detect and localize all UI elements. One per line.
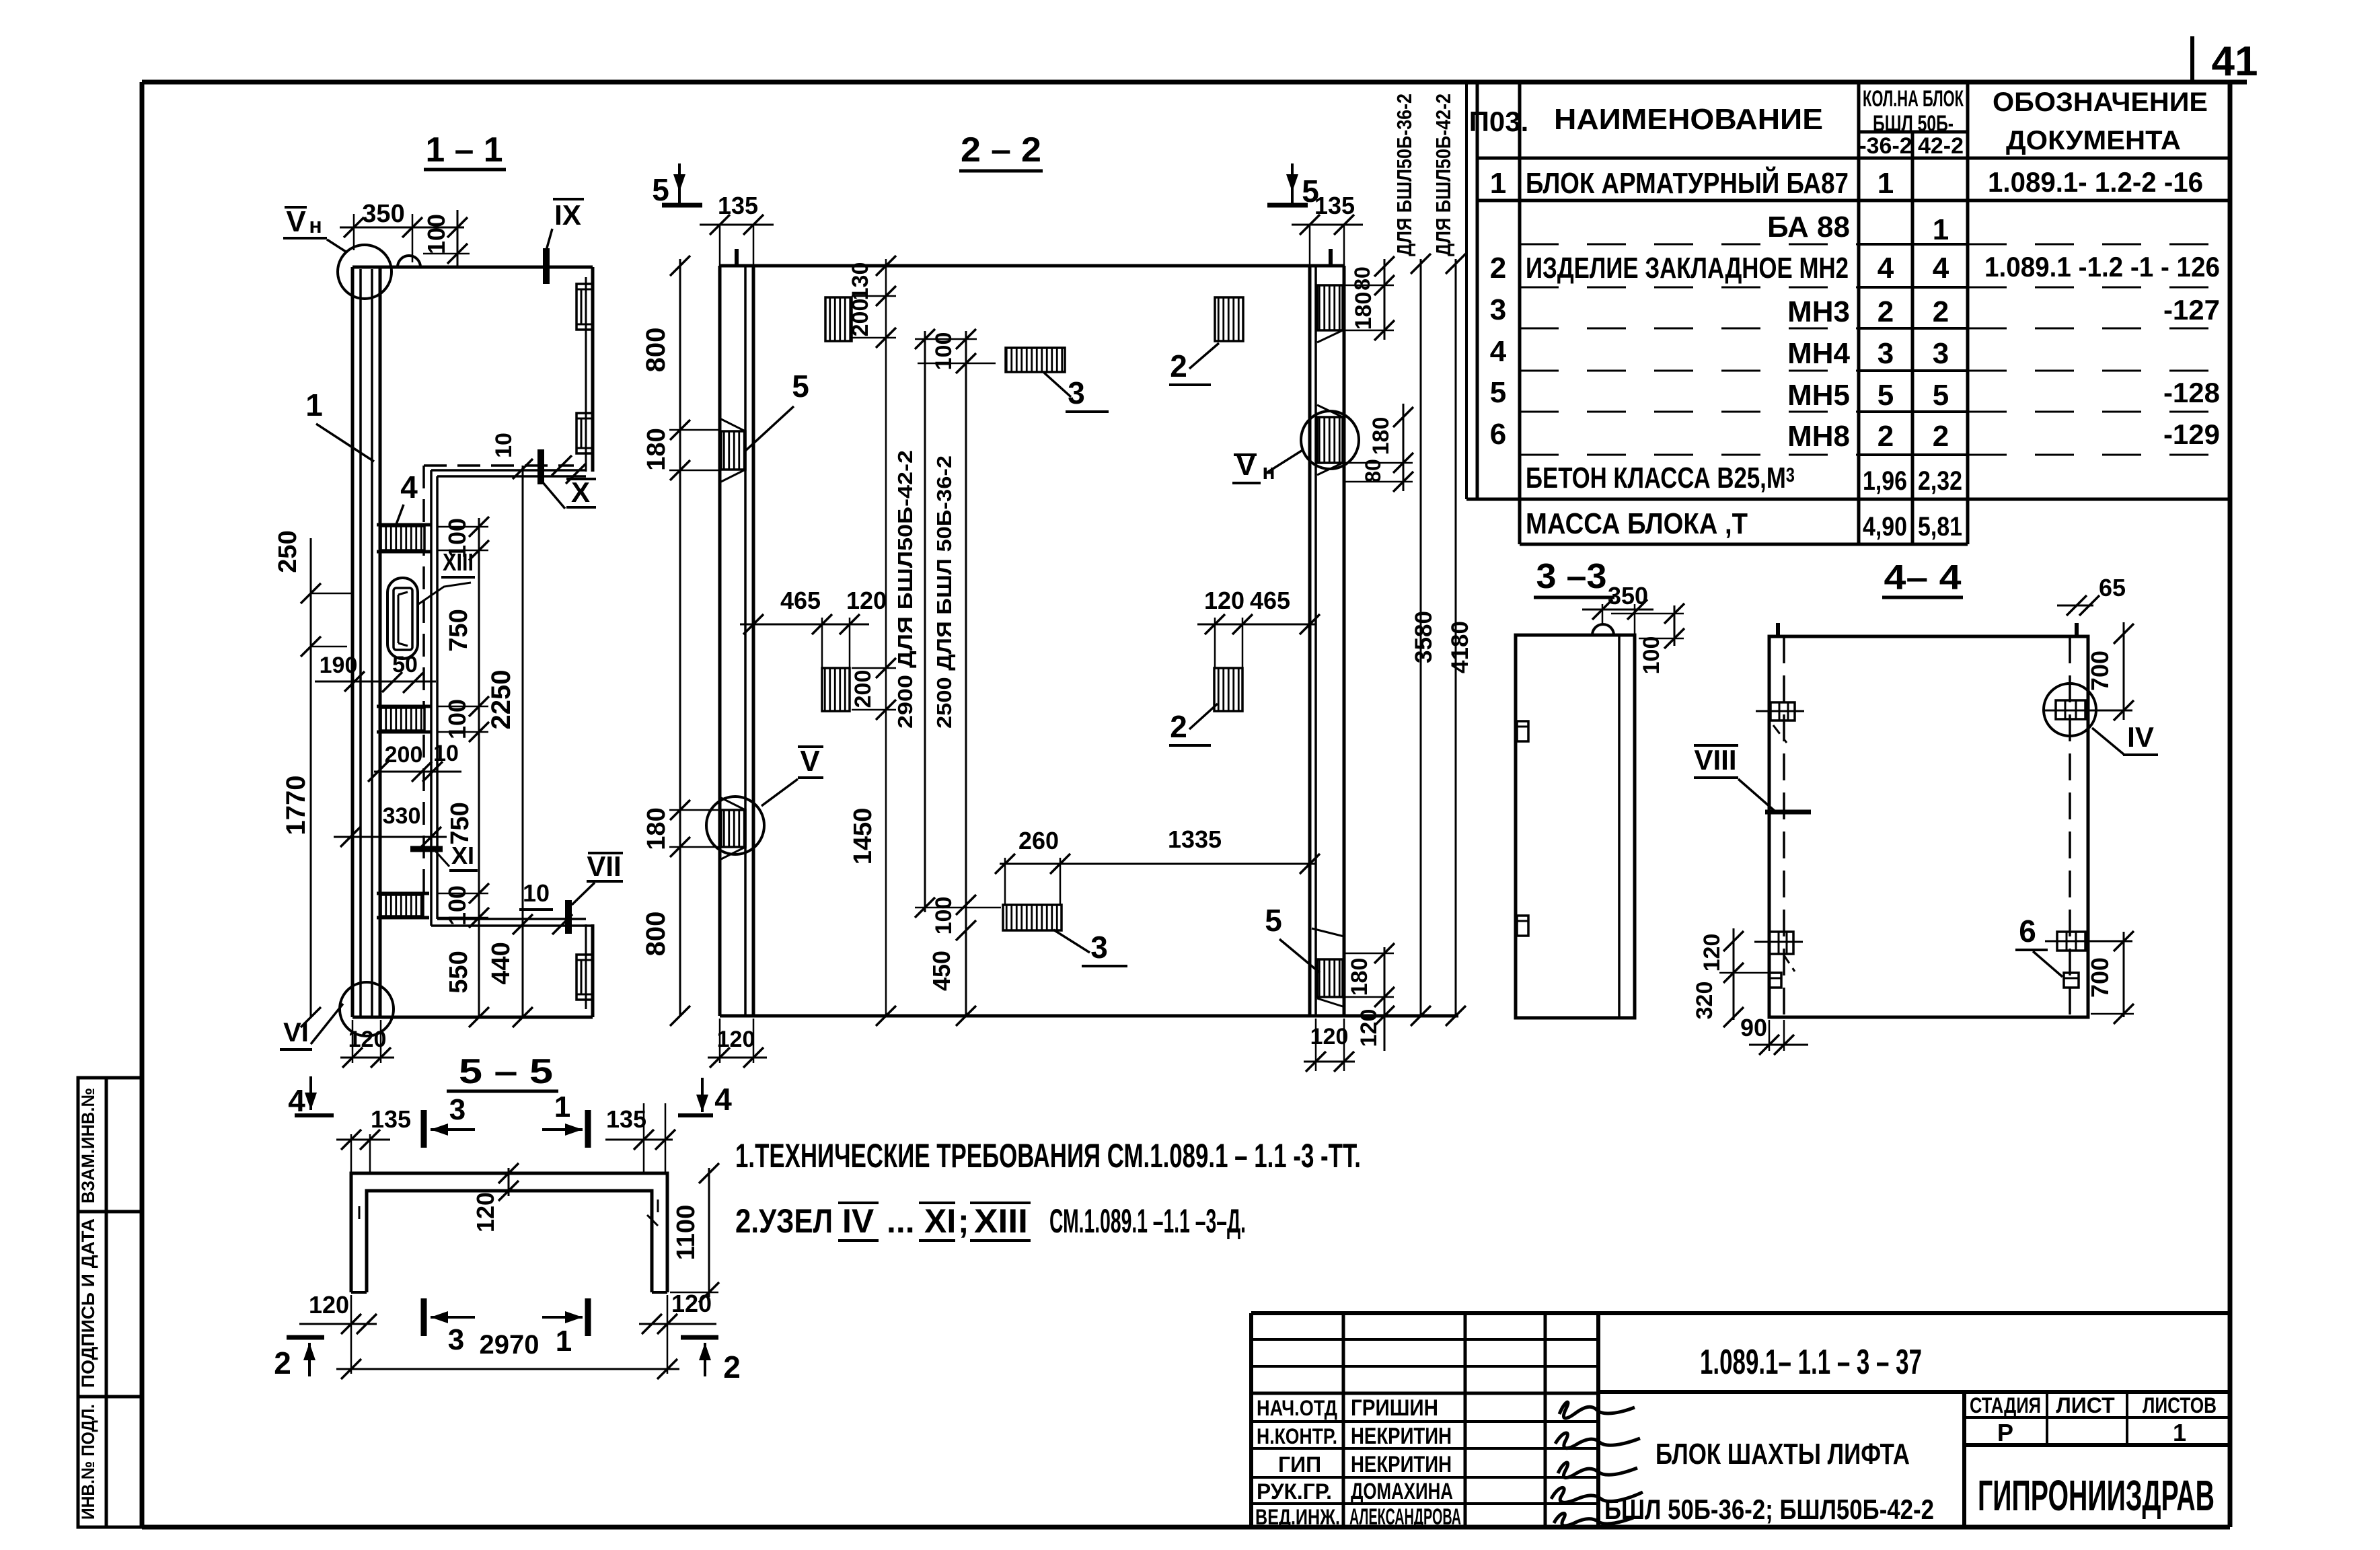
svg-text:МН8: МН8 (1787, 420, 1850, 453)
1-1 right top wall edge (591, 267, 595, 472)
svg-text:МН5: МН5 (1787, 379, 1850, 412)
2-2 tall dim line 2900 for 42-2 (924, 331, 926, 912)
svg-text:ЛИСТОВ: ЛИСТОВ (2143, 1393, 2217, 1417)
2-2 right wall plate bottom (pos5) (1317, 959, 1343, 997)
1-1 node circle VI bottom (340, 982, 394, 1036)
5-5 left leg bottom (351, 1291, 367, 1294)
svg-text:100: 100 (1639, 636, 1664, 675)
svg-text:МН3: МН3 (1787, 295, 1850, 328)
svg-text:V: V (286, 205, 306, 238)
svg-text:3: 3 (1490, 293, 1506, 326)
svg-text:200: 200 (385, 742, 423, 768)
sheet border frame (142, 80, 2247, 85)
svg-text:1100: 1100 (672, 1205, 700, 1260)
svg-text:250: 250 (274, 530, 302, 573)
2-2 right side wall lines (1308, 266, 1312, 1016)
svg-text:1450: 1450 (849, 808, 877, 865)
svg-text:2: 2 (274, 1345, 291, 1380)
4-4 wall outline (1769, 636, 2088, 1017)
2-2 right dim chain 180/80 at circle (1403, 404, 1405, 491)
svg-text:750: 750 (445, 609, 473, 651)
svg-text:42-2: 42-2 (1918, 133, 1964, 159)
svg-text:VIII: VIII (1694, 744, 1736, 776)
parts table outer left double border (1465, 82, 1468, 499)
2-2 node label V with leader (798, 745, 823, 748)
svg-text:ГРИШИН: ГРИШИН (1351, 1395, 1438, 1421)
svg-text:4: 4 (1933, 252, 1949, 285)
5-5 leg marks (359, 1206, 361, 1219)
svg-text:130: 130 (848, 262, 873, 301)
svg-text:100: 100 (443, 885, 471, 926)
1-1 niche visible edge (double) (431, 469, 586, 472)
svg-text:ДЛЯ БШЛ50Б-42-2: ДЛЯ БШЛ50Б-42-2 (1431, 94, 1455, 256)
parts table bottom line (1520, 543, 1968, 546)
svg-text:3580: 3580 (1411, 611, 1437, 663)
svg-text:НАИМЕНОВАНИЕ: НАИМЕНОВАНИЕ (1554, 103, 1823, 136)
svg-text:2500 ДЛЯ БШЛ 50Б-36-2: 2500 ДЛЯ БШЛ 50Б-36-2 (932, 455, 956, 729)
svg-text:МН4: МН4 (1787, 337, 1850, 370)
1-1 bottom edge (352, 1016, 593, 1019)
svg-text:-128: -128 (2163, 377, 2220, 408)
svg-text:2 – 2: 2 – 2 (961, 131, 1041, 170)
svg-text:ОБОЗНАЧЕНИЕ: ОБОЗНАЧЕНИЕ (1993, 87, 2208, 117)
svg-text:БЛОК АРМАТУРНЫЙ БА87: БЛОК АРМАТУРНЫЙ БА87 (1526, 165, 1849, 200)
1-1 dim chain inner (100/750/100/750/100/550) (478, 518, 480, 1017)
svg-text:1770: 1770 (281, 776, 311, 836)
svg-text:VI: VI (283, 1018, 309, 1047)
svg-text:120: 120 (472, 1192, 499, 1232)
svg-text:120: 120 (671, 1290, 712, 1317)
svg-text:5,81: 5,81 (1918, 512, 1962, 542)
parts table column line ПОЗ/Наименование (1518, 82, 1522, 544)
parts table column line Кол/Обозначение (1966, 82, 1970, 544)
svg-text:135: 135 (606, 1105, 646, 1133)
svg-text:ИЗДЕЛИЕ ЗАКЛАДНОЕ МН2: ИЗДЕЛИЕ ЗАКЛАДНОЕ МН2 (1526, 252, 1849, 285)
sidebar stamp column box (78, 1078, 142, 1527)
svg-text:800: 800 (641, 328, 671, 373)
1-1 bottom channel embed (577, 955, 593, 1000)
svg-text:4: 4 (714, 1082, 732, 1117)
svg-text:Р: Р (1997, 1419, 2013, 1446)
4-4 plate left lower (1769, 932, 1793, 954)
svg-text:ВЗАМ.ИНВ.№: ВЗАМ.ИНВ.№ (78, 1088, 98, 1204)
svg-text:80: 80 (1350, 266, 1374, 291)
svg-text:н: н (309, 213, 322, 237)
svg-text:41: 41 (2212, 38, 2258, 85)
parts table dashed row lines (1520, 244, 1859, 246)
4-4 node circle IV with plate (2056, 700, 2085, 719)
2-2 right wall plate top (1317, 285, 1343, 330)
svg-text:...: ... (887, 1202, 915, 1240)
svg-text:1: 1 (1490, 167, 1506, 200)
2-2 right wall top stub (1329, 249, 1333, 266)
svg-text:4: 4 (1490, 335, 1507, 368)
svg-text:330: 330 (383, 803, 421, 829)
2-2 right dim 180/120 bottom (1384, 947, 1386, 1051)
svg-text:320: 320 (1692, 982, 1717, 1020)
1-1 niche hidden edge (dashed) (424, 464, 574, 467)
svg-text:СМ.1.089.1 –1.1 –3–Д.: СМ.1.089.1 –1.1 –3–Д. (1049, 1202, 1246, 1240)
title block outer top line (1251, 1311, 2230, 1315)
4-4 small plate bottom right (pos 6) (2064, 973, 2079, 988)
5-5 section mark 1 top (585, 1110, 591, 1148)
svg-text:700: 700 (2086, 957, 2114, 998)
svg-text:120: 120 (1204, 587, 1244, 614)
title block стадия/лист columns (1964, 1416, 2230, 1419)
2-2 left side wall lines (718, 266, 722, 1016)
svg-text:190: 190 (320, 653, 358, 678)
2-2 left wall plate pos5 upper (721, 431, 745, 470)
svg-text:80: 80 (1361, 459, 1385, 483)
svg-text:120: 120 (846, 587, 887, 614)
4-4 dashed axis left (1783, 636, 1785, 1017)
svg-text:2,32: 2,32 (1918, 466, 1962, 496)
svg-text:-129: -129 (2163, 418, 2220, 450)
4-4 top stub right (2075, 623, 2079, 636)
svg-text:100: 100 (443, 699, 471, 739)
svg-text:1.089.1– 1.1 – 3 – 37: 1.089.1– 1.1 – 3 – 37 (1700, 1343, 1922, 1382)
svg-text:2970: 2970 (480, 1330, 540, 1360)
title block signature table rows (1251, 1338, 1598, 1341)
svg-text:3 –3: 3 –3 (1536, 557, 1607, 596)
svg-text:180: 180 (642, 807, 671, 850)
svg-text:100: 100 (931, 332, 957, 371)
svg-text:IX: IX (554, 199, 581, 231)
svg-text:2: 2 (1933, 420, 1949, 453)
2-2 ext lines for middle dims (915, 338, 977, 340)
svg-text:X: X (571, 476, 590, 508)
5-5 U-shaped wall outline (351, 1173, 667, 1292)
svg-text:АЛЕКСАНДРОВА: АЛЕКСАНДРОВА (1349, 1504, 1461, 1530)
1-1 label Vн (285, 206, 307, 209)
svg-text:1: 1 (1877, 167, 1894, 200)
parts table column line Наименование/Кол (1857, 82, 1861, 544)
4-4 dim 700 bottom (2123, 932, 2125, 1017)
svg-text:2: 2 (1933, 295, 1949, 328)
5-5 right leg bottom (652, 1291, 667, 1294)
svg-text:200: 200 (850, 670, 876, 708)
svg-text:IV: IV (842, 1202, 875, 1240)
5-5 dim 120 slab (rotated) (508, 1168, 510, 1196)
1-1 left dim chain (250/1770) (310, 538, 312, 1017)
svg-text:450: 450 (928, 951, 955, 991)
svg-text:V: V (1236, 449, 1256, 482)
1-1 embedded plate 4 (hatched) (381, 526, 424, 550)
4-4 plate left upper (1771, 702, 1795, 721)
5-5 section mark 1 bottom (585, 1298, 591, 1336)
svg-text:260: 260 (1018, 827, 1059, 854)
2-2 embedded plate top middle (pos3) (1006, 348, 1065, 372)
svg-text:1: 1 (1933, 213, 1949, 246)
svg-text:800: 800 (641, 912, 671, 957)
svg-text:4: 4 (288, 1083, 305, 1118)
1-1 bottom return wall top edge (double) (437, 918, 586, 920)
3-3 edge plate lower (1517, 916, 1528, 936)
svg-text:10: 10 (523, 879, 550, 907)
svg-text:135: 135 (718, 192, 758, 219)
svg-text:4: 4 (400, 470, 418, 505)
svg-text:ИНВ.№ ПОДЛ.: ИНВ.№ ПОДЛ. (78, 1404, 98, 1520)
svg-text:5 – 5: 5 – 5 (459, 1052, 553, 1091)
5-5 section mark 4 right (near notes) (678, 1113, 713, 1117)
2-2 left dim chain 800/180/180/800 (679, 259, 681, 1016)
svg-text:4180: 4180 (1447, 621, 1473, 673)
4-4 dim 120/320 left (1733, 928, 1735, 1020)
svg-text:МАССА БЛОКА ,Т: МАССА БЛОКА ,Т (1526, 507, 1748, 540)
2-2 embedded plate row1 left (pos2) (825, 297, 852, 341)
4-4 top stub left (1776, 623, 1780, 636)
svg-text:5: 5 (1877, 379, 1894, 412)
4-4 node VIII leader bold mark (1765, 810, 1811, 815)
svg-text:;: ; (958, 1202, 969, 1240)
svg-text:XI: XI (451, 842, 474, 869)
2-2 section mark 5 top right (1291, 163, 1294, 192)
svg-text:135: 135 (1314, 192, 1355, 219)
4-4 dim 700 top (2123, 622, 2125, 720)
svg-text:350: 350 (362, 200, 404, 228)
1-1 top flange edge (352, 266, 593, 269)
2-2 embedded plate mid right (pos2) (1214, 668, 1242, 711)
svg-text:-127: -127 (2163, 294, 2220, 326)
svg-text:ГИПРОНИИЗДРАВ: ГИПРОНИИЗДРАВ (1978, 1471, 2215, 1520)
svg-text:1: 1 (305, 387, 323, 422)
5-5 dim 1100 right (708, 1168, 710, 1297)
svg-text:4,90: 4,90 (1863, 512, 1907, 542)
svg-text:180: 180 (1347, 958, 1372, 996)
svg-text:180: 180 (642, 428, 671, 470)
svg-text:3: 3 (448, 1323, 464, 1356)
svg-text:120: 120 (1356, 1009, 1382, 1047)
svg-text:50: 50 (392, 652, 418, 677)
2-2 left wall top stub (735, 249, 739, 266)
5-5 section mark 3 bottom (421, 1298, 427, 1336)
4-4 plate bottom right (2057, 932, 2085, 951)
2-2 top edge (720, 264, 1344, 268)
1-1 anchor slot (oval) (387, 578, 418, 659)
svg-text:120: 120 (1699, 934, 1725, 972)
svg-text:2250: 2250 (486, 670, 516, 730)
svg-text:3: 3 (1877, 337, 1894, 370)
2-2 embedded plate mid left (pos2) (822, 668, 850, 711)
svg-text:ПОДПИСЬ И ДАТА: ПОДПИСЬ И ДАТА (78, 1218, 98, 1388)
2-2 right wall plate circled (node Vн) (1317, 417, 1343, 463)
svg-text:БЛОК ШАХТЫ ЛИФТА: БЛОК ШАХТЫ ЛИФТА (1656, 1438, 1910, 1471)
2-2 tall dim 4180 (1455, 259, 1457, 1016)
svg-text:700: 700 (2086, 651, 2114, 691)
svg-text:ЛИСТ: ЛИСТ (2056, 1393, 2115, 1417)
2-2 embedded plate bottom middle (pos3) (1003, 905, 1062, 930)
parts table line above Масса row (1466, 498, 2230, 501)
1-1 bottom return wall right edge (591, 924, 595, 1017)
svg-text:6: 6 (1490, 418, 1506, 451)
svg-text:10: 10 (433, 741, 459, 766)
svg-text:180: 180 (1351, 292, 1376, 330)
svg-text:135: 135 (371, 1105, 411, 1133)
svg-text:3: 3 (1068, 375, 1085, 410)
1-1 node label IX (553, 198, 584, 200)
2-2 right dim chain 80/180 top (1384, 259, 1386, 340)
parts table row line under row 1 (1477, 199, 2230, 202)
svg-text:550: 550 (445, 951, 473, 993)
svg-text:2900 ДЛЯ БШЛ50Б-42-2: 2900 ДЛЯ БШЛ50Б-42-2 (893, 450, 917, 729)
3-3 lifting loop (1592, 624, 1614, 635)
2-2 embedded plate row1 right (pos2) (1215, 297, 1243, 341)
svg-text:Н.КОНТР.: Н.КОНТР. (1257, 1424, 1337, 1448)
svg-text:120: 120 (309, 1291, 349, 1319)
svg-text:1: 1 (2173, 1419, 2186, 1446)
svg-text:5: 5 (792, 369, 809, 404)
title block document number box (1598, 1390, 2230, 1394)
svg-text:65: 65 (2099, 574, 2126, 601)
svg-text:100: 100 (443, 518, 471, 558)
svg-text:1335: 1335 (1168, 825, 1222, 853)
5-5 section mark 2 bottom left (287, 1335, 324, 1340)
svg-text:440: 440 (487, 942, 515, 984)
svg-text:П03.: П03. (1469, 106, 1529, 137)
5-5 section mark 2 bottom right (681, 1335, 718, 1340)
svg-text:5: 5 (1490, 376, 1506, 409)
svg-text:1 – 1: 1 – 1 (426, 131, 503, 170)
svg-text:1: 1 (556, 1325, 572, 1358)
1-1 embedded plate lower (hatched) (381, 895, 423, 916)
svg-text:БШЛ 50Б-36-2; БШЛ50Б-42-2: БШЛ 50Б-36-2; БШЛ50Б-42-2 (1604, 1493, 1934, 1525)
svg-text:НЕКРИТИН: НЕКРИТИН (1351, 1452, 1452, 1477)
2-2 tall dim 3580 (1420, 259, 1422, 1016)
svg-text:2: 2 (1170, 348, 1187, 383)
3-3 wall outline (1516, 635, 1635, 1018)
4-4 dashed axis right (2069, 636, 2071, 1017)
svg-text:ДОКУМЕНТА: ДОКУМЕНТА (2006, 126, 2181, 155)
svg-text:-36-2: -36-2 (1859, 133, 1912, 159)
svg-text:ДОМАХИНА: ДОМАХИНА (1351, 1479, 1453, 1504)
parts table column line 36-2/42-2 (1911, 132, 1914, 544)
1-1 embedded plate middle (hatched) (381, 708, 424, 731)
3-3 wall face line (1618, 635, 1621, 1018)
svg-text:НАЧ.ОТД: НАЧ.ОТД (1257, 1396, 1337, 1420)
svg-text:2.УЗЕЛ: 2.УЗЕЛ (735, 1202, 833, 1240)
svg-text:3: 3 (1933, 337, 1949, 370)
svg-text:XI: XI (924, 1202, 956, 1240)
svg-text:465: 465 (780, 587, 821, 614)
2-2 node label Vн with leader (1234, 453, 1257, 456)
svg-text:НЕКРИТИН: НЕКРИТИН (1351, 1424, 1452, 1449)
1-1 node label VII (588, 852, 623, 854)
2-2 left wall plate pos5 circled (node V) (721, 810, 745, 847)
svg-text:СТАДИЯ: СТАДИЯ (1970, 1393, 2041, 1417)
svg-text:10: 10 (491, 433, 517, 458)
svg-text:2: 2 (1877, 420, 1894, 453)
1-1 top channel embed 1 (577, 284, 593, 330)
svg-text:2: 2 (723, 1350, 741, 1385)
title block signatures (handwritten) (1559, 1402, 1635, 1418)
2-2 top mid dim chain 130/200 (885, 259, 887, 1016)
svg-text:90: 90 (1740, 1014, 1767, 1041)
parts table header row lines (1859, 131, 1968, 134)
svg-text:3: 3 (449, 1093, 466, 1126)
svg-text:V: V (800, 745, 820, 778)
svg-text:1: 1 (554, 1091, 570, 1123)
1-1 top channel embed 2 (577, 413, 593, 453)
1-1 node label XI (410, 846, 443, 852)
svg-text:РУК.ГР.: РУК.ГР. (1257, 1479, 1332, 1504)
5-5 section mark 3 top (421, 1110, 427, 1148)
svg-text:БЕТОН КЛАССА В25,М3: БЕТОН КЛАССА В25,М3 (1526, 462, 1795, 494)
svg-text:180: 180 (1368, 417, 1394, 455)
svg-text:IV: IV (2127, 721, 2154, 753)
svg-text:120: 120 (717, 1027, 755, 1052)
svg-text:2: 2 (1490, 252, 1506, 285)
svg-text:1,96: 1,96 (1863, 466, 1907, 496)
svg-text:ВЕД.ИНЖ.: ВЕД.ИНЖ. (1255, 1505, 1340, 1529)
1-1 node label X (566, 478, 596, 480)
svg-text:750: 750 (446, 802, 474, 844)
svg-text:1.089.1 -1.2 -1 - 126: 1.089.1 -1.2 -1 - 126 (1984, 251, 2220, 283)
svg-text:1.089.1- 1.2-2 -16: 1.089.1- 1.2-2 -16 (1988, 166, 2203, 198)
svg-text:2: 2 (1877, 295, 1894, 328)
3-3 edge plate upper (1517, 721, 1528, 741)
2-2 tall dim line 2500 for 36-2 / 100 / 450 (965, 331, 967, 1017)
title block left edge (1249, 1313, 1253, 1527)
1-1 dim chain outer (2250/440) (522, 466, 524, 1017)
page number 41 tick (2190, 36, 2194, 82)
svg-text:100: 100 (422, 214, 450, 254)
svg-text:КОЛ.НА БЛОК: КОЛ.НА БЛОК (1863, 86, 1964, 112)
svg-text:5: 5 (652, 172, 669, 207)
1-1 lifting loop (398, 256, 420, 267)
2-2 bottom edge (720, 1014, 1458, 1018)
svg-text:XIII: XIII (974, 1202, 1028, 1240)
svg-text:3: 3 (1090, 930, 1108, 965)
svg-text:100: 100 (931, 897, 957, 935)
svg-text:4: 4 (1877, 252, 1894, 285)
svg-text:6: 6 (2019, 914, 2036, 949)
1-1 long wall (plan lines) (351, 267, 355, 1017)
svg-text:5: 5 (1933, 379, 1949, 412)
svg-text:465: 465 (1250, 587, 1290, 614)
1-1 dim 100 top (rotated) (457, 210, 459, 267)
svg-text:VII: VII (587, 850, 621, 882)
2-2 mid dim 200 at plate (876, 658, 896, 678)
title block центральная надпись (1962, 1392, 1966, 1527)
title block signature table columns (1342, 1313, 1345, 1527)
4-4 small plate left bottom (1769, 973, 1781, 988)
5-5 U-shape inner edge (367, 1191, 652, 1292)
svg-text:ДЛЯ БШЛ50Б-36-2: ДЛЯ БШЛ50Б-36-2 (1392, 94, 1416, 256)
svg-text:4– 4: 4– 4 (1884, 558, 1962, 597)
svg-text:ГИП: ГИП (1278, 1452, 1321, 1477)
svg-text:5: 5 (1265, 903, 1282, 938)
svg-text:2: 2 (1170, 709, 1187, 744)
svg-text:1.ТЕХНИЧЕСКИЕ ТРЕБОВАНИЯ СМ.: 1.ТЕХНИЧЕСКИЕ ТРЕБОВАНИЯ СМ.1.089.1 – 1.… (735, 1137, 1361, 1175)
svg-text:БА 88: БА 88 (1767, 211, 1850, 244)
1-1 node circle Vн top (338, 245, 392, 299)
svg-text:200: 200 (848, 299, 873, 337)
